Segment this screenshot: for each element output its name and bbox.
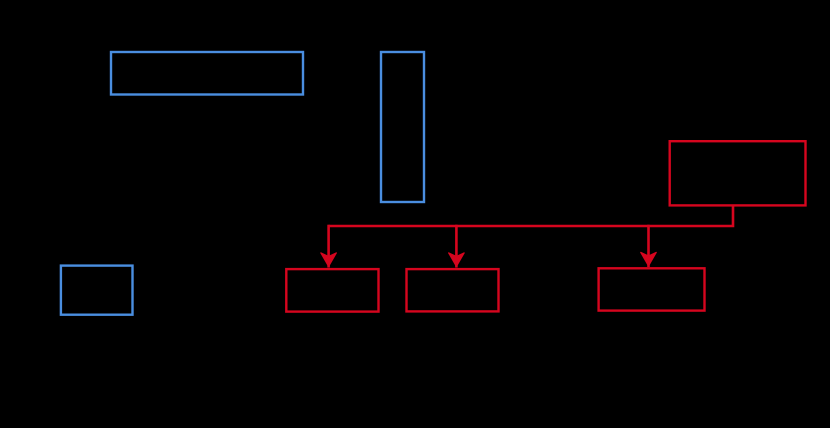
blue box top-left [111,52,303,95]
red box 1 (below arrow 1) [286,269,378,312]
red box 3 (below arrow 3) [599,268,705,310]
arrow 1 stem [327,225,330,268]
arrow 3 stem [647,225,650,267]
arrow 3 head [641,252,656,265]
red connector trunk: from bottom of top-right box, down and left [329,205,733,227]
arrow 1 head [321,253,336,266]
arrow 2 stem [455,225,458,268]
arrow 2 head [449,253,464,266]
red box 2 (below arrow 2) [407,269,499,311]
red box top-right [670,141,806,205]
blue box bottom-left [61,266,133,315]
blue vertical box [381,52,424,202]
